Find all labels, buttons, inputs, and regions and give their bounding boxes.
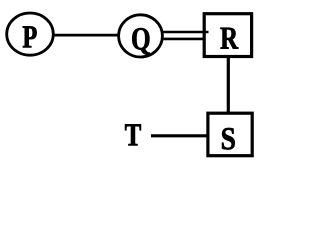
wire R-S [227,57,230,113]
node P label [23,26,37,47]
node P circle [7,13,54,55]
node S box [208,113,252,156]
node R label [221,28,239,49]
wire T-S [151,134,208,137]
node Q circle [119,15,163,57]
node R box [204,14,251,57]
wire Q-R double line bottom [161,38,206,41]
wire Q-R double line top [161,31,209,34]
node S label [222,128,235,150]
node Q label [132,28,149,54]
node T label [125,124,141,145]
wire P-Q [52,34,119,37]
